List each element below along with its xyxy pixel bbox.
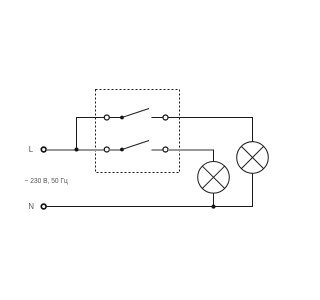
svg-text:N: N [28, 202, 34, 211]
switch S2 (bottom pole) [104, 141, 168, 153]
node junction on L wire [75, 148, 79, 152]
svg-text:~ 230 В, 50 Гц: ~ 230 В, 50 Гц [25, 176, 68, 185]
lever S1 [122, 109, 149, 118]
pin terminal S1 left [104, 115, 109, 120]
wire S1 gap side [152, 117, 163, 119]
wire L feed [47, 149, 105, 151]
wire S2 output to lamp E1 [168, 149, 213, 151]
switch unit enclosure (dashed box) [96, 90, 180, 173]
pin terminal S2 right [163, 147, 168, 152]
wire branch up to switch S1 [77, 118, 105, 150]
wire S2 terminal to pivot [109, 149, 121, 151]
pivot dot S2 [120, 148, 124, 152]
wire lamp E1 to neutral [213, 193, 215, 207]
wire lamp E2 to neutral [47, 173, 253, 206]
lamp E2 (right) [237, 142, 269, 174]
wire S1 output to lamp E2 [168, 118, 252, 142]
switch S1 (top pole) [104, 109, 168, 121]
wire lamp E1 drop [213, 150, 215, 162]
pin terminal S2 left [104, 147, 109, 152]
pin terminal S1 right [163, 115, 168, 120]
lever S2 [122, 141, 149, 150]
terminal N [41, 204, 46, 209]
svg-text:L: L [29, 145, 34, 154]
wire S1 terminal to pivot [109, 117, 121, 119]
pivot dot S1 [120, 116, 124, 120]
lamp E1 (left) [198, 162, 230, 194]
node junction on N wire [212, 205, 216, 209]
terminal L [41, 147, 46, 152]
wire S2 gap side [152, 149, 163, 151]
